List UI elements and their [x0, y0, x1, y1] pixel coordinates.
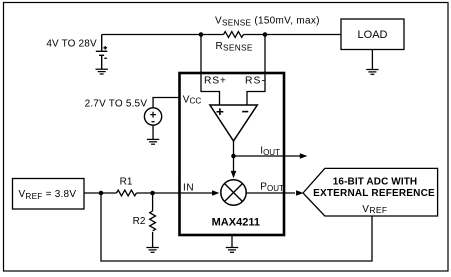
multiplier X1 [221, 180, 246, 205]
node A (left sense junction) [199, 32, 204, 37]
wire R2 to ground [152, 232, 154, 248]
wire IOUT [234, 155, 301, 157]
svg-text:4V TO 28V: 4V TO 28V [46, 38, 97, 49]
node D [99, 191, 104, 196]
wire RS- drop [247, 35, 265, 106]
arrow IN [212, 190, 219, 195]
arrow POUT [296, 190, 303, 196]
svg-text:R1: R1 [120, 176, 133, 187]
wire RS+ drop [201, 35, 220, 106]
battery B1 [96, 35, 108, 70]
LOAD box [341, 19, 404, 50]
wire source to ground [152, 125, 154, 139]
wire VREF return (ADC to node D) [101, 193, 372, 261]
svg-text:LOAD: LOAD [358, 29, 388, 41]
node C (IOUT junction) [231, 154, 236, 159]
wire LOAD to ground [371, 50, 373, 70]
IC U1 MAX4211 block [180, 73, 285, 235]
svg-text:2.7V TO 5.5V: 2.7V TO 5.5V [85, 98, 148, 109]
svg-text:IN: IN [183, 183, 194, 194]
svg-text:VREF: VREF [362, 204, 387, 215]
wire op-amp out to junction [233, 141, 235, 156]
resistor R2 [150, 211, 156, 231]
svg-text:R2: R2 [133, 216, 146, 227]
svg-text:MAX4211: MAX4211 [212, 217, 260, 229]
ground (LOAD) [366, 70, 378, 75]
resistor R1 [117, 190, 137, 196]
node E (R2 junction) [150, 191, 155, 196]
svg-text:VCC: VCC [183, 94, 202, 105]
wire R1 to IN [137, 192, 213, 194]
wire VREF box to node D [84, 192, 117, 194]
voltage source VS1 (2.7V TO 5.5V) [144, 108, 161, 125]
op-amp U1a [210, 105, 257, 141]
resistor RSENSE [224, 32, 244, 38]
svg-text:RS+: RS+ [204, 75, 227, 86]
wire POUT to ADC [246, 192, 295, 194]
ADC block (16-BIT ADC WITH EXTERNAL REFERENCE) [303, 168, 438, 216]
arrow IOUT [300, 153, 308, 159]
ground (source) [147, 139, 159, 144]
ground (battery) [96, 69, 108, 74]
svg-text:RS-: RS- [245, 75, 266, 86]
wire VCC from source to block [153, 98, 179, 108]
VREF source box [13, 179, 85, 210]
wire R2 from node E [152, 193, 154, 211]
node B (right sense junction) [263, 32, 268, 37]
wire block to ground [231, 236, 233, 248]
ground (MAX4211) [226, 248, 238, 253]
svg-text:EXTERNAL REFERENCE: EXTERNAL REFERENCE [313, 188, 435, 199]
wire junction to multiplier [233, 156, 235, 172]
arrow into multiplier [231, 171, 237, 178]
svg-text:16-BIT ADC WITH: 16-BIT ADC WITH [333, 177, 417, 188]
wire top rail from battery to LOAD [102, 34, 341, 36]
svg-text:RSENSE: RSENSE [216, 41, 253, 53]
ground (R2) [146, 248, 158, 253]
